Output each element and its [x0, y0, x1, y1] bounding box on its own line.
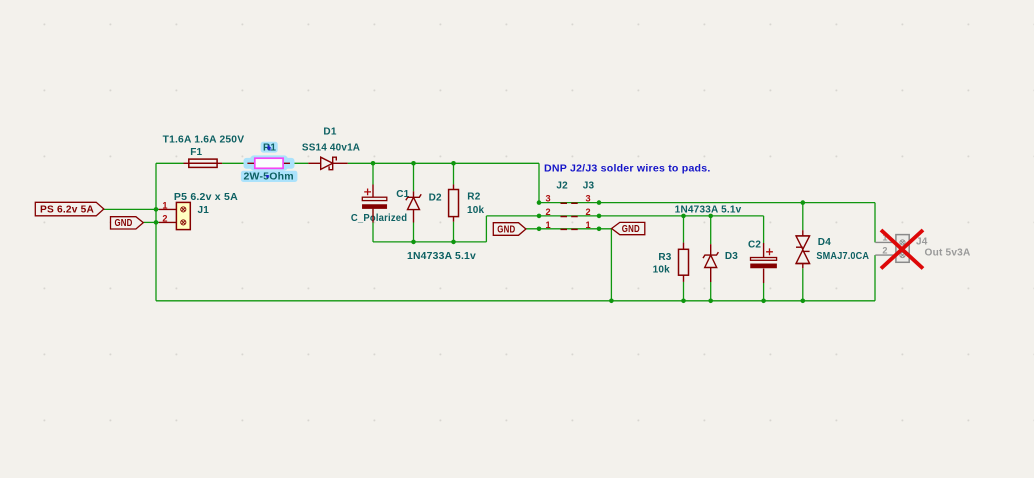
svg-text:GND: GND — [622, 224, 640, 235]
svg-text:1: 1 — [546, 220, 551, 230]
wire R3 bottom — [683, 282, 685, 301]
wire R2 top — [453, 163, 455, 184]
capacitor C1 — [362, 185, 387, 223]
resistor R1 (selected, highlighted) — [244, 155, 295, 170]
wire row2 J2 pin2 — [486, 215, 763, 217]
wire right drop to J4 pin1 — [874, 203, 876, 243]
wire R3 top — [683, 216, 685, 243]
jumper J2 dashed body — [561, 203, 579, 229]
node junction R3 top row2 — [681, 214, 686, 219]
svg-text:PS 6.2v 5A: PS 6.2v 5A — [40, 205, 94, 216]
zener diode D2 — [406, 191, 421, 222]
wire D4 top — [802, 203, 804, 231]
svg-text:J2: J2 — [556, 181, 568, 192]
node junction D4 top row3 — [801, 200, 806, 205]
svg-text:1: 1 — [162, 200, 167, 210]
svg-text:J4: J4 — [916, 236, 928, 247]
svg-text:F1: F1 — [190, 147, 202, 158]
svg-text:GND: GND — [497, 225, 515, 236]
wire bottom ground rail — [156, 300, 875, 302]
svg-text:DNP J2/J3 solder wires to pads: DNP J2/J3 solder wires to pads. — [544, 163, 711, 174]
resistor R3 — [679, 243, 689, 282]
fuse F1 — [184, 159, 223, 167]
diode D1 — [308, 157, 347, 170]
svg-text:2: 2 — [546, 207, 551, 217]
wire row1 drop to ground rail — [610, 229, 612, 301]
wire D2 top — [413, 163, 415, 191]
wire R1 to D1 — [290, 162, 308, 164]
wire row3 top rail right — [539, 202, 875, 204]
node junction J2 pin2 left — [537, 214, 542, 219]
wire F1 to R1 — [222, 162, 247, 164]
wire left vertical bus — [155, 163, 157, 300]
svg-text:D2: D2 — [429, 192, 442, 203]
wire row1 GND — [526, 228, 612, 230]
svg-text:1N4733A 5.1v: 1N4733A 5.1v — [675, 204, 742, 215]
svg-text:3: 3 — [586, 194, 591, 204]
node junction J3 pin1 right — [597, 227, 602, 232]
node junction D2 bottom — [411, 240, 416, 245]
svg-text:1N4733A 5.1v: 1N4733A 5.1v — [407, 251, 476, 262]
wire C1 bottom — [372, 223, 374, 242]
node junction R2 bottom — [451, 240, 456, 245]
node junction R2 top — [451, 161, 456, 166]
node junction C2 bottom — [761, 299, 766, 304]
svg-text:C_Polarized: C_Polarized — [351, 213, 407, 224]
resistor R2 — [449, 184, 459, 221]
wire riser to row2 — [485, 216, 487, 242]
wire GND label to J1 pin2 — [143, 221, 159, 223]
svg-text:D4: D4 — [818, 237, 831, 248]
svg-text:D3: D3 — [725, 251, 738, 262]
svg-text:R3: R3 — [658, 252, 671, 263]
svg-text:C2: C2 — [748, 240, 761, 251]
svg-text:2: 2 — [586, 207, 591, 217]
svg-text:R2: R2 — [467, 192, 480, 203]
mouse cursor arrow — [268, 145, 272, 151]
wire C1 top — [372, 163, 374, 184]
value label 2W-5Ohm (highlighted) — [241, 171, 298, 183]
svg-text:SS14 40v1A: SS14 40v1A — [302, 143, 360, 154]
reference label R1 (highlighted) — [261, 142, 278, 154]
DNP red cross over J4 — [881, 230, 923, 269]
wire D3 top — [710, 216, 712, 244]
node junction J3 pin3 right — [597, 200, 602, 205]
global label GND (row1 right) — [612, 222, 645, 235]
node junction C1 top — [371, 161, 376, 166]
svg-text:T1.6A 1.6A 250V: T1.6A 1.6A 250V — [163, 135, 245, 146]
svg-text:Out 5v3A: Out 5v3A — [925, 247, 971, 258]
node junction R3 bottom — [681, 299, 686, 304]
node junction ground rail row1 drop — [609, 299, 614, 304]
wire drop to J2 pin3 row — [538, 163, 540, 202]
wire top rail left segment — [156, 162, 184, 164]
wire C2 bottom — [763, 283, 765, 301]
node junction J2 pin1 left — [537, 227, 542, 232]
node junction D2 top — [411, 161, 416, 166]
svg-text:J3: J3 — [583, 181, 595, 192]
svg-text:1: 1 — [586, 220, 591, 230]
connector J1 — [159, 202, 190, 229]
svg-text:SMAJ7.0CA: SMAJ7.0CA — [816, 251, 869, 262]
wire right riser from ground to J4 pin2 — [874, 255, 876, 301]
wire sub ground rail — [373, 241, 486, 243]
node junction J2 pin3 left — [537, 200, 542, 205]
svg-text:D1: D1 — [323, 126, 336, 137]
connector J4 (DNP, greyed) — [875, 235, 909, 263]
svg-text:3: 3 — [546, 194, 551, 204]
node junction D3 bottom — [708, 299, 713, 304]
wire D2 bottom — [413, 223, 415, 242]
node junction J1 pin2 — [154, 220, 159, 225]
svg-text:2: 2 — [162, 213, 167, 223]
wire D4 bottom — [802, 268, 804, 301]
wire C2 top drop — [763, 216, 765, 243]
wire PS label to J1 pin1 — [104, 208, 159, 210]
node junction J3 pin2 right — [597, 214, 602, 219]
global label GND (row1 left) — [493, 223, 526, 236]
wire D1 to corner, top rail — [348, 162, 539, 164]
svg-text:P5 6.2v x 5A: P5 6.2v x 5A — [174, 192, 238, 203]
global label PS 6.2v 5A — [35, 202, 104, 216]
capacitor C2 — [751, 243, 777, 283]
svg-text:GND: GND — [115, 218, 133, 229]
svg-text:10k: 10k — [653, 264, 671, 275]
zener diode D3 — [703, 244, 718, 282]
global label GND (J1) — [111, 217, 144, 230]
node junction D4 bottom — [801, 299, 806, 304]
node junction J1 pin1 — [154, 207, 159, 212]
wire D3 bottom — [710, 282, 712, 301]
TVS diode D4 — [796, 230, 810, 268]
svg-text:2: 2 — [882, 246, 887, 256]
node junction D3 top row2 — [708, 214, 713, 219]
svg-text:10k: 10k — [467, 205, 485, 216]
svg-text:J1: J1 — [198, 205, 210, 216]
wire R2 bottom — [453, 222, 455, 242]
